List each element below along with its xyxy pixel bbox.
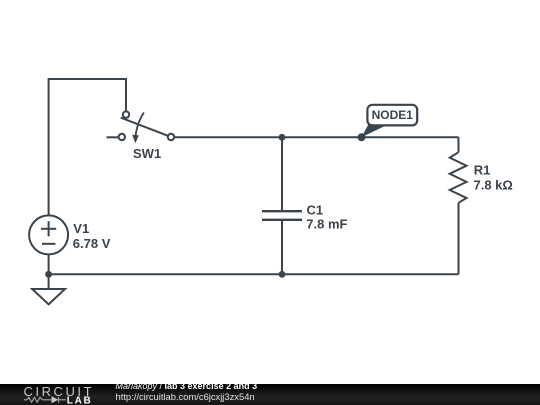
ground symbol [32,289,65,304]
V1 plus sign [41,221,56,244]
CircuitLab logo [0,384,116,405]
wire: V1 top to top-left corner to switch common [49,79,126,216]
wire: right vertical above resistor R1 [458,137,460,152]
node junction dot at C1 top [279,134,286,141]
logo diode triangle [52,396,59,403]
node junction dot at V1 bottom [45,271,52,278]
wire: capacitor C1 top lead [281,137,283,211]
svg-text:SW1: SW1 [133,146,161,161]
wire: bottom net from V1 to right corner [49,273,459,275]
wire: right vertical below resistor R1 [458,203,460,274]
switch action arrow arc [136,113,144,138]
svg-text:NODE1: NODE1 [372,108,414,122]
svg-text:C1: C1 [307,203,324,218]
switch throw terminal (right) [168,134,174,140]
wire: capacitor C1 bottom lead [281,220,283,274]
switch common terminal [123,111,129,117]
node junction dot NODE1 [358,133,366,141]
voltage source V1 body [29,215,68,254]
node junction dot at C1 bottom [279,271,286,278]
switch unused terminal stub [107,136,119,138]
svg-text:LAB: LAB [67,395,93,405]
V1 minus sign [42,243,55,245]
resistor R1 zigzag [450,152,467,203]
switch SW1 [107,111,175,140]
switch arrow head [132,135,139,144]
footer bar [0,384,540,405]
svg-text:6.78 V: 6.78 V [73,236,111,251]
svg-text:R1: R1 [474,162,491,177]
svg-text:7.8 kΩ: 7.8 kΩ [474,178,513,193]
wire: V1 bottom lead [48,254,50,274]
switch blade [121,118,168,136]
logo schematic glyph: wire-resistor-diode-wire [24,397,66,403]
switch unused terminal (left) [119,134,125,140]
footer title [116,381,258,391]
NODE1 flag tail [362,125,388,137]
svg-text:7.8 mF: 7.8 mF [306,217,347,232]
wire: ground lead [48,274,50,289]
NODE1 flag box [367,105,417,126]
wire: switch output to right corner [174,136,459,138]
capacitor C1 plates [262,211,302,220]
footer url [116,391,255,402]
svg-text:V1: V1 [73,221,89,236]
